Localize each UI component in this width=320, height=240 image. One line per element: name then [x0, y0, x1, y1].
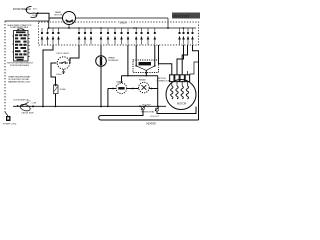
wire right long vertical to heater: [193, 45, 199, 120]
svg-text:COM: COM: [32, 15, 37, 17]
pilot light label: [57, 53, 70, 55]
door switch (bottom): [14, 100, 29, 102]
motor M1: [166, 80, 196, 110]
junction dot node L1: [167, 27, 169, 29]
svg-text:WASHING MODEL ONLY: WASHING MODEL ONLY: [8, 80, 31, 83]
svg-text:LATCH SIDE: LATCH SIDE: [22, 112, 35, 115]
bottom neutral bus N with junction dots: [13, 105, 166, 107]
wires timer to motor connector: [159, 45, 172, 75]
svg-text:MOTOR: MOTOR: [55, 14, 63, 16]
timer motor M1: [63, 12, 76, 25]
wax motor W1: [116, 83, 127, 94]
wire L1 top bus to right and drop: [76, 18, 169, 28]
svg-text:HI-LIMIT: HI-LIMIT: [143, 104, 152, 106]
wire timer drop to wax motor 1: [127, 45, 129, 76]
TIMER label on box top: [117, 20, 129, 24]
svg-text:N.O.: N.O.: [33, 8, 38, 10]
svg-text:COM: COM: [32, 103, 37, 105]
wire timer drop to pilot light: [70, 45, 79, 63]
svg-text:CONNECTOR: CONNECTOR: [157, 80, 171, 82]
motor start relay K1: [133, 60, 159, 73]
svg-text:LIGHT: LIGHT: [56, 74, 63, 76]
timer motor label: [55, 12, 63, 16]
drain solenoid L2: [96, 56, 107, 67]
svg-text:POSITION (PUSHED): POSITION (PUSHED): [10, 65, 30, 67]
svg-text:PILOT LIGHT: PILOT LIGHT: [57, 53, 70, 55]
console border top: [5, 20, 49, 22]
pilot light (dashed circle): [57, 57, 69, 69]
wax motor 1 label: [117, 80, 124, 83]
wire pilot left down through fuse: [51, 63, 57, 85]
door switch label (top): [13, 7, 31, 11]
push-button switch bank: [14, 29, 29, 62]
hi-limit thermostat TH1: [143, 104, 152, 106]
fuse F1: [54, 85, 59, 94]
svg-text:CUT-OUT: CUT-OUT: [150, 116, 160, 118]
wire distribution rail: [122, 75, 158, 77]
console dashed border left: [4, 21, 6, 112]
power cord plug P2: [5, 112, 8, 116]
timer switch contacts: [41, 28, 194, 45]
push-button pins: [28, 35, 30, 57]
svg-text:RINSE: RINSE: [139, 80, 146, 82]
wire timer drop through drain solenoid: [100, 45, 102, 106]
timer contacts: [0, 0, 1, 1]
text block: connector note: [8, 24, 32, 29]
door switch (top): [26, 6, 37, 17]
wire wax motor branch with junction dots: [108, 88, 158, 90]
junction dots on timer bus: [68, 27, 70, 29]
text block: note: [8, 75, 31, 83]
timer bus: [49, 21, 196, 28]
push-button contacts grid: [15, 31, 27, 60]
wire timer drops into relay: [136, 45, 155, 66]
svg-text:FUSE: FUSE: [60, 89, 66, 91]
legend box (top right): [172, 13, 200, 19]
timer dashed box: [39, 22, 199, 45]
svg-text:POWER CORD: POWER CORD: [3, 123, 17, 125]
wire timer contact drop to node A: [43, 45, 53, 106]
svg-text:MOTOR: MOTOR: [177, 103, 186, 106]
wax motor W2: [139, 82, 150, 93]
wire timer motor stub: [68, 24, 70, 28]
wire relay output with junction dots: [145, 70, 147, 75]
motor connector P1: [170, 75, 190, 82]
wax motor 2 label: [139, 80, 146, 82]
svg-text:HEATER: HEATER: [147, 122, 156, 125]
wire door switch to timer motor: [38, 13, 63, 21]
svg-text:#9703183: #9703183: [173, 14, 189, 18]
thermostat TH2: [155, 108, 158, 111]
svg-text:COMPONENTS SIDE: COMPONENTS SIDE: [10, 27, 29, 29]
motor windings: [172, 82, 188, 86]
svg-text:TIMER: TIMER: [118, 20, 128, 24]
svg-text:SOLENOID: SOLENOID: [108, 60, 119, 62]
heater element HE1 loop: [101, 110, 144, 116]
text block: below push buttons: [7, 63, 34, 67]
